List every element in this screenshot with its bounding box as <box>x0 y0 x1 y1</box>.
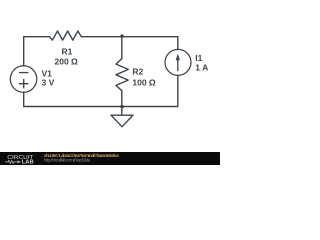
wire right from I1 bottom to bottom-right corner <box>177 75 179 106</box>
V1 plus sign <box>19 79 28 88</box>
labels <box>42 47 209 88</box>
svg-text:100 Ω: 100 Ω <box>132 77 156 87</box>
I1 arrow shaft <box>177 60 179 71</box>
resistor R1 zigzag <box>49 31 81 40</box>
current source I1 circle <box>165 49 191 75</box>
wire bottom <box>24 106 178 108</box>
wire top-left from V1 top to R1 left <box>24 37 50 66</box>
wire ground stub <box>121 107 123 116</box>
svg-text:I1: I1 <box>195 53 202 63</box>
wire top from R1 right to I1 top <box>81 37 178 50</box>
footer logo zigzag wire and arrow <box>5 160 17 163</box>
ground symbol triangle <box>111 115 133 127</box>
svg-text:http://circuitlab.com/c/wp5dda: http://circuitlab.com/c/wp5dda <box>44 157 91 162</box>
wire bottom-left up to V1 bottom <box>23 92 25 106</box>
svg-text:LAB: LAB <box>22 160 34 165</box>
svg-text:3 V: 3 V <box>42 77 55 87</box>
svg-text:R1: R1 <box>62 47 73 57</box>
wire R2 branch bottom <box>121 91 123 107</box>
node junction dot bottom (R2/bottom wire) <box>120 105 124 109</box>
V1 minus sign <box>19 72 28 74</box>
svg-text:1 A: 1 A <box>195 63 208 73</box>
svg-text:200 Ω: 200 Ω <box>55 57 79 67</box>
resistor R2 zigzag <box>116 59 128 91</box>
voltage source V1 circle <box>10 66 37 93</box>
I1 arrow head <box>176 54 180 61</box>
node junction dot top (R2/top wire) <box>120 34 124 38</box>
footer bar <box>0 152 220 165</box>
wire R2 branch top <box>121 37 123 59</box>
svg-text:R2: R2 <box>132 67 143 77</box>
